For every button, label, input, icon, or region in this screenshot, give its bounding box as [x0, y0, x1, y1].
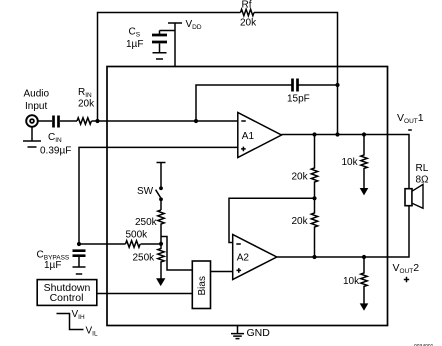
svg-text:0.39µF: 0.39µF — [40, 146, 71, 157]
capacitor CS — [152, 35, 167, 42]
wire A1 output to VOUT1 — [282, 135, 410, 189]
ground GND pin — [237, 326, 239, 334]
resistor 20k upper of gain chain — [311, 135, 317, 199]
svg-text:A1: A1 — [242, 131, 255, 142]
ground below CBYPASS — [78, 257, 80, 267]
svg-text:1µF: 1µF — [44, 260, 61, 271]
wire 15pF branch — [196, 85, 338, 121]
svg-text:250k: 250k — [135, 217, 158, 228]
resistor 20k lower of gain chain — [311, 198, 317, 256]
switch SW lever — [156, 190, 161, 198]
wire bypass to A1 plus input — [79, 147, 238, 244]
svg-text:15pF: 15pF — [287, 94, 310, 105]
wire feedback top loop — [98, 13, 338, 135]
wire jack to CIN — [38, 120, 53, 122]
ground below jack — [31, 127, 33, 141]
wire 20k midpoint to A2 inverting input — [229, 198, 315, 242]
svg-text:Audio: Audio — [24, 89, 50, 100]
pin A2 plus — [237, 268, 242, 273]
speaker RL — [405, 189, 412, 206]
bias box — [192, 261, 210, 309]
wire bypass node to 500k — [79, 243, 161, 245]
capacitor 15pF — [293, 79, 298, 92]
wire CIN to RIN — [60, 120, 77, 122]
node 20k midpoint — [312, 196, 316, 200]
resistor 10k second — [361, 257, 367, 305]
wire input line to A1 inverting input — [92, 120, 238, 122]
svg-text:20k: 20k — [292, 172, 309, 183]
pin A2 minus — [236, 243, 241, 245]
node bypass junction — [77, 242, 81, 246]
ground arrow below 10k second — [360, 303, 369, 310]
svg-text:20k: 20k — [240, 18, 257, 29]
resistor Rf — [241, 9, 254, 15]
svg-text:250k: 250k — [133, 253, 156, 264]
node 20k chain bottom — [312, 255, 316, 259]
svg-text:20k: 20k — [78, 99, 95, 110]
resistor 500k — [126, 241, 141, 248]
audio input jack — [26, 115, 38, 127]
resistor 10k first — [361, 135, 367, 190]
ground below CS — [159, 44, 161, 53]
op-amp A1 — [238, 113, 282, 158]
label VOUT1 minus — [408, 129, 412, 131]
capacitor CIN — [54, 116, 59, 128]
node 250k junction — [159, 242, 163, 246]
node Rf 15pF junction — [335, 83, 339, 87]
svg-text:Bias: Bias — [197, 276, 208, 295]
node input feedback junction — [95, 119, 99, 123]
svg-text:RL: RL — [416, 163, 429, 174]
wire bias to A2 plus input — [211, 271, 233, 273]
power VDD — [168, 23, 182, 67]
switch SW terminal — [157, 163, 166, 187]
wire shutdown to bias — [97, 293, 193, 295]
label VOUT2 plus — [404, 277, 409, 282]
svg-text:1µF: 1µF — [126, 39, 143, 50]
node 10k top junction — [362, 132, 366, 136]
ground arrow below 10k first — [360, 188, 369, 195]
svg-text:Rf: Rf — [242, 0, 252, 11]
svg-text:SW: SW — [137, 186, 154, 197]
resistor 250k upper — [158, 210, 164, 244]
svg-text:8Ω: 8Ω — [416, 175, 430, 186]
node 20k chain top — [312, 132, 316, 136]
node 15pF tap junction — [194, 119, 198, 123]
pin A1 plus — [241, 147, 246, 152]
node 10k second junction — [362, 255, 366, 259]
svg-text:10k: 10k — [342, 157, 359, 168]
svg-text:Input: Input — [25, 101, 47, 112]
svg-text:Control: Control — [50, 292, 84, 304]
svg-text:500k: 500k — [126, 230, 149, 241]
wire A2 output to VOUT2 — [277, 206, 409, 258]
svg-text:A2: A2 — [237, 253, 250, 264]
capacitor CBYPASS — [73, 251, 86, 256]
IC boundary box — [107, 67, 388, 326]
wire CS to VDD — [160, 31, 176, 35]
ground arrow below 250k — [156, 278, 165, 286]
op-amp A2 — [233, 235, 277, 280]
pin A1 minus — [241, 120, 246, 122]
shutdown control box — [37, 280, 97, 306]
signal VIH VIL step waveform — [57, 314, 84, 330]
svg-text:20k: 20k — [292, 216, 309, 227]
svg-text:GND: GND — [247, 327, 271, 339]
resistor RIN — [77, 118, 91, 124]
wire SW to 250k upper — [160, 199, 162, 210]
wire tap to bias — [161, 237, 192, 271]
node Rf output junction — [335, 132, 339, 136]
resistor 250k lower — [158, 244, 164, 280]
svg-text:10k: 10k — [343, 276, 360, 287]
